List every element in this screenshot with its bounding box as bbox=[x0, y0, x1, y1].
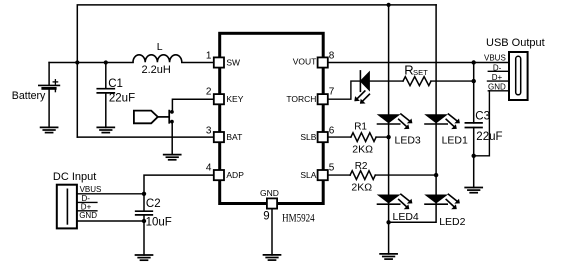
pin 6 (SLB) bbox=[318, 132, 328, 142]
svg-text:9: 9 bbox=[263, 211, 269, 223]
ground (battery) bbox=[41, 127, 58, 132]
svg-text:SW: SW bbox=[226, 57, 240, 67]
svg-text:L: L bbox=[157, 41, 163, 53]
svg-text:VBUS: VBUS bbox=[484, 54, 506, 63]
junction dot: top rail / LED3 column bbox=[387, 3, 391, 7]
connector J1 DC Input bbox=[57, 185, 77, 229]
svg-text:LED2: LED2 bbox=[439, 216, 465, 228]
ground (key switch) bbox=[164, 155, 181, 160]
ground (C2) bbox=[136, 255, 153, 260]
pin D+ (J1) bbox=[77, 210, 97, 212]
resistor R1 bbox=[328, 133, 389, 142]
svg-text:Battery: Battery bbox=[12, 90, 46, 102]
svg-text:2.2uH: 2.2uH bbox=[142, 64, 171, 76]
junction dot: C3 bottom / USB GND bbox=[472, 154, 476, 158]
pin 5 (SLA) bbox=[318, 170, 328, 180]
svg-text:D-: D- bbox=[493, 63, 502, 72]
svg-text:VBUS: VBUS bbox=[80, 185, 102, 194]
junction dot: rail / left vertical bbox=[75, 60, 79, 64]
junction dot: C2 bottom / DC GND bbox=[142, 219, 146, 223]
svg-text:D+: D+ bbox=[492, 73, 503, 82]
pin 1 (SW) bbox=[214, 57, 224, 67]
svg-text:BAT: BAT bbox=[226, 132, 242, 142]
svg-text:DC Input: DC Input bbox=[53, 171, 96, 183]
LED2 bbox=[425, 194, 460, 209]
svg-text:8: 8 bbox=[329, 51, 335, 62]
svg-text:4: 4 bbox=[206, 162, 212, 173]
pin 4 (ADP) bbox=[214, 170, 224, 180]
wire: ADP net from pin 4 to DC VBUS node bbox=[144, 175, 214, 194]
junction dot: R2 / LED1-LED2 column bbox=[434, 173, 438, 177]
pin VBUS (J1) bbox=[77, 193, 144, 195]
IC U1 HM5924 body bbox=[220, 33, 324, 203]
LED4 bbox=[378, 194, 413, 209]
pin 2 (KEY) bbox=[214, 94, 224, 104]
pin 3 (BAT) bbox=[214, 132, 224, 142]
svg-text:SET: SET bbox=[413, 68, 428, 77]
wire: switch to ground bbox=[171, 122, 173, 155]
junction dot: R1 / LED column bbox=[386, 135, 390, 139]
svg-text:USB Output: USB Output bbox=[486, 37, 545, 49]
wire: battery positive rail (battery to inductor) bbox=[49, 62, 133, 64]
wire: KEY net from pin 2 to switch bbox=[172, 99, 214, 111]
svg-text:GND: GND bbox=[260, 188, 279, 198]
capacitor C2 bbox=[136, 194, 153, 255]
pin VBUS (J2) bbox=[474, 62, 509, 64]
pin 9 (GND) bbox=[267, 198, 277, 208]
LED3 bbox=[378, 114, 413, 129]
svg-text:KEY: KEY bbox=[226, 94, 243, 104]
LED D5 (torch LED) bbox=[354, 71, 369, 104]
svg-text:LED3: LED3 bbox=[395, 135, 421, 147]
ground (C1) bbox=[97, 127, 114, 132]
ground (C3) bbox=[465, 188, 482, 193]
svg-text:LED4: LED4 bbox=[393, 211, 419, 223]
svg-text:HM5924: HM5924 bbox=[282, 213, 315, 225]
wire: GND pin 9 to ground bbox=[271, 209, 273, 255]
svg-text:GND: GND bbox=[79, 211, 97, 220]
svg-text:D+: D+ bbox=[81, 202, 92, 211]
ground (pin 9) bbox=[264, 255, 281, 260]
svg-text:VOUT: VOUT bbox=[293, 56, 317, 66]
pin D+ (J2) bbox=[488, 80, 510, 82]
svg-text:C2: C2 bbox=[146, 198, 161, 210]
svg-text:LED1: LED1 bbox=[442, 135, 468, 147]
junction dot: RSET wire / C3 column bbox=[472, 79, 476, 83]
svg-text:ADP: ADP bbox=[226, 170, 244, 180]
battery B1 bbox=[39, 63, 60, 128]
wire: LED1/LED2 column and bottom return bbox=[389, 5, 437, 222]
pin GND (J2) bbox=[488, 90, 509, 92]
svg-text:2KΩ: 2KΩ bbox=[352, 144, 373, 156]
wire: top rail from battery rail up and across to LED anode columns bbox=[77, 5, 436, 137]
svg-text:TORCH: TORCH bbox=[286, 94, 316, 104]
wire: LED3/LED4 column bbox=[388, 5, 390, 222]
capacitor C3 bbox=[465, 63, 482, 188]
wire: inductor to SW pin 1 bbox=[182, 62, 214, 64]
pin D- (J1) bbox=[77, 201, 97, 203]
svg-text:2KΩ: 2KΩ bbox=[351, 181, 372, 193]
junction dot: ADP / DC VBUS / C2 bbox=[142, 192, 146, 196]
svg-text:GND: GND bbox=[488, 83, 506, 92]
junction dot: VOUT / USB VBUS / C3 bbox=[472, 60, 476, 64]
ground (LEDs) bbox=[380, 254, 397, 259]
LED1 bbox=[425, 114, 460, 129]
wire: VOUT net from pin 8 to USB VBUS bbox=[328, 62, 474, 64]
svg-text:3: 3 bbox=[206, 125, 212, 136]
wire: RSET to C3 column bbox=[431, 80, 474, 82]
inductor L bbox=[133, 55, 182, 62]
pin 7 (TORCH) bbox=[318, 94, 328, 104]
pin GND (J1) bbox=[77, 220, 144, 222]
capacitor C1 bbox=[97, 63, 114, 128]
svg-text:C3: C3 bbox=[475, 110, 490, 122]
pin 8 (VOUT) bbox=[318, 57, 328, 67]
connector J2 USB Output bbox=[509, 52, 528, 100]
svg-text:R2: R2 bbox=[355, 161, 368, 172]
resistor R2 bbox=[328, 171, 436, 180]
svg-text:SLA: SLA bbox=[300, 170, 316, 180]
wire: LED cathodes to ground bbox=[388, 222, 390, 254]
svg-text:7: 7 bbox=[329, 86, 335, 97]
wire: USB GND return to C3 bbox=[474, 91, 490, 156]
wire: torch LED anode to RSET bbox=[369, 80, 403, 82]
svg-text:1: 1 bbox=[206, 51, 212, 62]
svg-text:10uF: 10uF bbox=[146, 217, 172, 229]
svg-text:22uF: 22uF bbox=[109, 92, 135, 104]
pin D- (J2) bbox=[488, 70, 509, 72]
svg-text:SLB: SLB bbox=[300, 132, 316, 142]
pushbutton S1 (key) bbox=[134, 110, 174, 124]
junction dot: LED4/LED2 cathode bottom bbox=[386, 220, 390, 224]
wire: TORCH net from pin 7 to torch LED bbox=[328, 81, 361, 99]
svg-text:6: 6 bbox=[329, 125, 335, 136]
wire: BAT net from left vertical to pin 3 bbox=[77, 136, 214, 138]
svg-text:2: 2 bbox=[206, 86, 212, 97]
svg-text:C1: C1 bbox=[108, 78, 123, 90]
svg-text:R1: R1 bbox=[354, 121, 367, 132]
svg-text:5: 5 bbox=[329, 162, 335, 173]
junction dot: rail / C1 bbox=[104, 60, 108, 64]
resistor RSET bbox=[403, 77, 431, 86]
